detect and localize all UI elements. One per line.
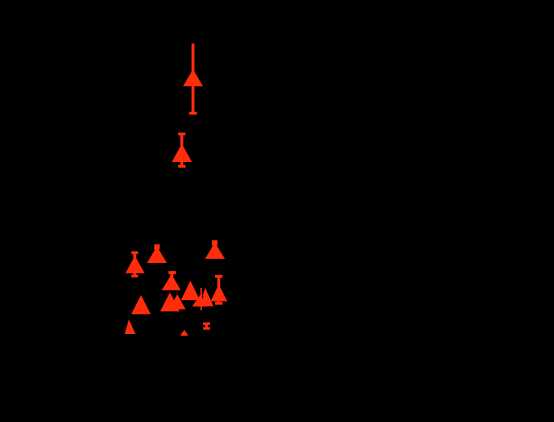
data point M2: triangle marker with capped error bar [172, 133, 192, 168]
data point M1: triangle marker with asymmetric error bar [183, 44, 203, 115]
data point M11: triangle marker [131, 295, 151, 314]
data point M8: triangle marker [181, 281, 200, 301]
data point M7b: overlapping triangle marker [169, 294, 186, 309]
data point M3: triangle marker with capped error bar [125, 251, 144, 277]
data point M9: thin vertical error bar [200, 288, 202, 310]
data point M8b: partially hidden triangle marker [192, 295, 208, 307]
data point M13: tiny triangle marker with bottom cap [181, 330, 188, 336]
data point M10: triangle marker with capped error bar [211, 275, 228, 305]
data point M4: triangle marker with small top stub [147, 244, 167, 263]
data point M5: triangle marker with small top stub [205, 240, 225, 259]
data point M12: small triangle marker [125, 319, 136, 334]
data point M6: triangle marker with top cap [162, 271, 181, 290]
data point M9b: small triangle marker [203, 288, 213, 306]
data point M14: short capped error bar [203, 322, 210, 329]
data point M7a: triangle marker [160, 292, 179, 311]
